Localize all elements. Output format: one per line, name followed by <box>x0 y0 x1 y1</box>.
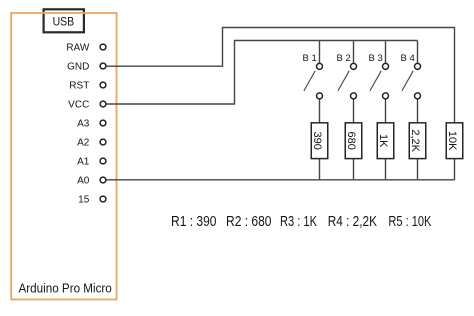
svg-text:B 1: B 1 <box>303 53 317 64</box>
svg-text:Arduino Pro Micro: Arduino Pro Micro <box>19 281 112 296</box>
svg-text:B 3: B 3 <box>369 53 383 64</box>
svg-text:GND: GND <box>67 62 89 73</box>
svg-text:10K: 10K <box>446 131 458 151</box>
svg-text:VCC: VCC <box>68 100 89 111</box>
svg-text:R5 : 10K: R5 : 10K <box>388 214 431 230</box>
svg-text:A3: A3 <box>77 119 90 130</box>
svg-text:RAW: RAW <box>66 43 90 54</box>
svg-text:RST: RST <box>69 81 89 92</box>
svg-text:390: 390 <box>311 132 323 150</box>
svg-text:A1: A1 <box>77 157 90 168</box>
svg-text:1K: 1K <box>377 134 389 148</box>
svg-text:R4 : 2,2K: R4 : 2,2K <box>328 214 378 230</box>
svg-text:A2: A2 <box>77 138 90 149</box>
svg-text:A0: A0 <box>77 176 90 187</box>
svg-text:B 4: B 4 <box>401 53 415 64</box>
svg-text:680: 680 <box>345 132 357 150</box>
svg-text:B 2: B 2 <box>337 53 351 64</box>
svg-text:R1 : 390: R1 : 390 <box>171 214 217 230</box>
svg-text:2,2K: 2,2K <box>409 129 421 152</box>
svg-text:USB: USB <box>53 16 75 29</box>
svg-text:15: 15 <box>78 195 90 206</box>
svg-text:R3 : 1K: R3 : 1K <box>280 214 317 230</box>
svg-text:R2 : 680: R2 : 680 <box>226 214 272 230</box>
